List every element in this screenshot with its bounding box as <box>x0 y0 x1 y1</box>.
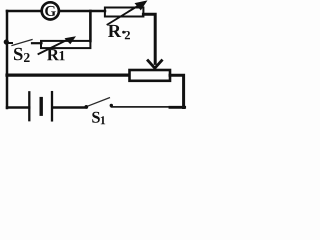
node S2 pivot dot <box>4 39 9 44</box>
node T-junction (top wire to R1 branch) <box>89 11 92 41</box>
label R1 <box>47 49 65 60</box>
wire middle rail (left rail to potentiometer) <box>7 73 129 76</box>
wiper arrow into potentiometer <box>148 61 162 69</box>
label S1 <box>92 112 105 124</box>
galvanometer G1 <box>42 2 59 19</box>
switch S2 <box>7 40 42 46</box>
wire R2 to right drop <box>143 14 155 63</box>
wire bottom left (left rail to battery) <box>7 106 29 108</box>
wire left rail <box>6 11 9 108</box>
battery BT1 <box>29 92 52 120</box>
wire bottom right (S1 to right rail) <box>112 106 173 108</box>
potentiometer R3 (box) <box>130 70 171 81</box>
label S2 <box>14 48 30 62</box>
resistor R2 (rheostat box) <box>105 8 143 17</box>
resistor R1 (rheostat box) <box>41 41 90 48</box>
wire potentiometer right to bottom rail <box>170 75 184 107</box>
switch S1 <box>84 98 113 109</box>
R1 wiper diagonal arrow <box>39 36 77 54</box>
wire battery to S1 <box>53 106 86 108</box>
wire galvanometer to R2 <box>59 10 105 13</box>
R2 wiper diagonal arrow <box>108 0 148 24</box>
wire top left (rail to galvanometer) <box>7 10 42 13</box>
label R2 <box>108 25 130 39</box>
